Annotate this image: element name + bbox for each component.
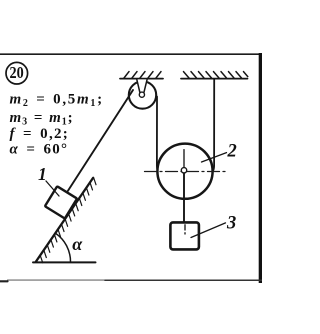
pulley 2 horizontal centerline (dash-dot) (145, 171, 226, 173)
svg-text:20: 20 (10, 63, 24, 82)
svg-text:α: α (72, 234, 83, 254)
incline surface line (36, 178, 93, 262)
label 1 leader line (46, 181, 59, 196)
frame bottom rule (darker right part) (105, 279, 262, 281)
label 3 leader line (191, 223, 226, 238)
rope from block 1 up to pulley P1 (68, 90, 133, 191)
block 3 (hanging mass) (170, 222, 199, 249)
svg-text:3: 3 (226, 214, 236, 234)
left ceiling hatching (124, 72, 161, 78)
pulley P1 bracket (white yoke over circle) (136, 79, 148, 93)
pulley P1 bracket legs (137, 79, 140, 92)
right ceiling hatching (184, 72, 248, 78)
svg-text:2: 2 (227, 141, 237, 161)
block 1 on incline (45, 186, 77, 218)
big pulley 2 (157, 144, 212, 199)
rope from ceiling down to pulley 2 (right side) (212, 79, 214, 173)
incline hatching (40, 177, 96, 262)
pulley 2 vertical centerline above axle (183, 150, 185, 167)
ground baseline (33, 261, 96, 263)
rope from pulley P1 down to pulley 2 (left side) (157, 97, 159, 173)
svg-text:m2 = 0,5m1;: m2 = 0,5m1; (10, 92, 104, 110)
pulley 2 axle (181, 168, 186, 173)
problem number circle 20 (6, 62, 28, 84)
svg-text:m3 = m1;: m3 = m1; (10, 110, 74, 128)
small pulley P1 (129, 81, 156, 108)
svg-text:1: 1 (38, 164, 47, 184)
frame bottom-left dark segment (0, 280, 8, 282)
svg-text:f = 0,2;: f = 0,2; (10, 126, 70, 142)
rope from pulley 2 axle down to block 3 (183, 173, 185, 223)
angle alpha arc (56, 233, 71, 262)
left ceiling support line (120, 78, 163, 80)
block 3 centerline dash (184, 225, 186, 230)
svg-text:α = 60°: α = 60° (10, 142, 69, 158)
frame bottom rule (light left part) (8, 279, 106, 281)
frame top border (0, 53, 262, 55)
right ceiling support line (181, 78, 248, 80)
label 2 leader line (202, 153, 227, 162)
frame right border bar (259, 53, 262, 283)
pulley P1 axle (139, 92, 144, 97)
